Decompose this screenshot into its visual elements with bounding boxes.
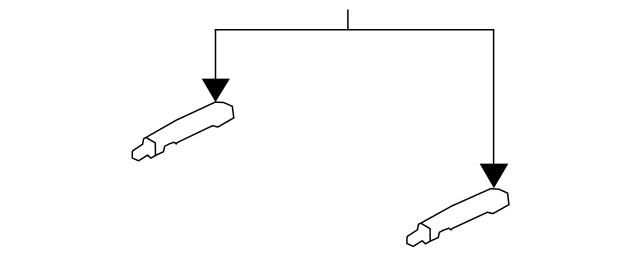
leader horizontal <box>215 29 495 31</box>
part 2: fold line <box>421 223 430 241</box>
leader drop right <box>493 30 495 165</box>
part 1: fold line <box>146 138 155 156</box>
part 2: handle outline (right) <box>407 188 509 248</box>
part 1: handle outline (left) <box>132 102 234 161</box>
arrowhead right <box>480 164 509 189</box>
leader stub (top vertical) <box>347 10 349 31</box>
leader drop left <box>215 30 217 80</box>
arrowhead left <box>202 79 230 103</box>
